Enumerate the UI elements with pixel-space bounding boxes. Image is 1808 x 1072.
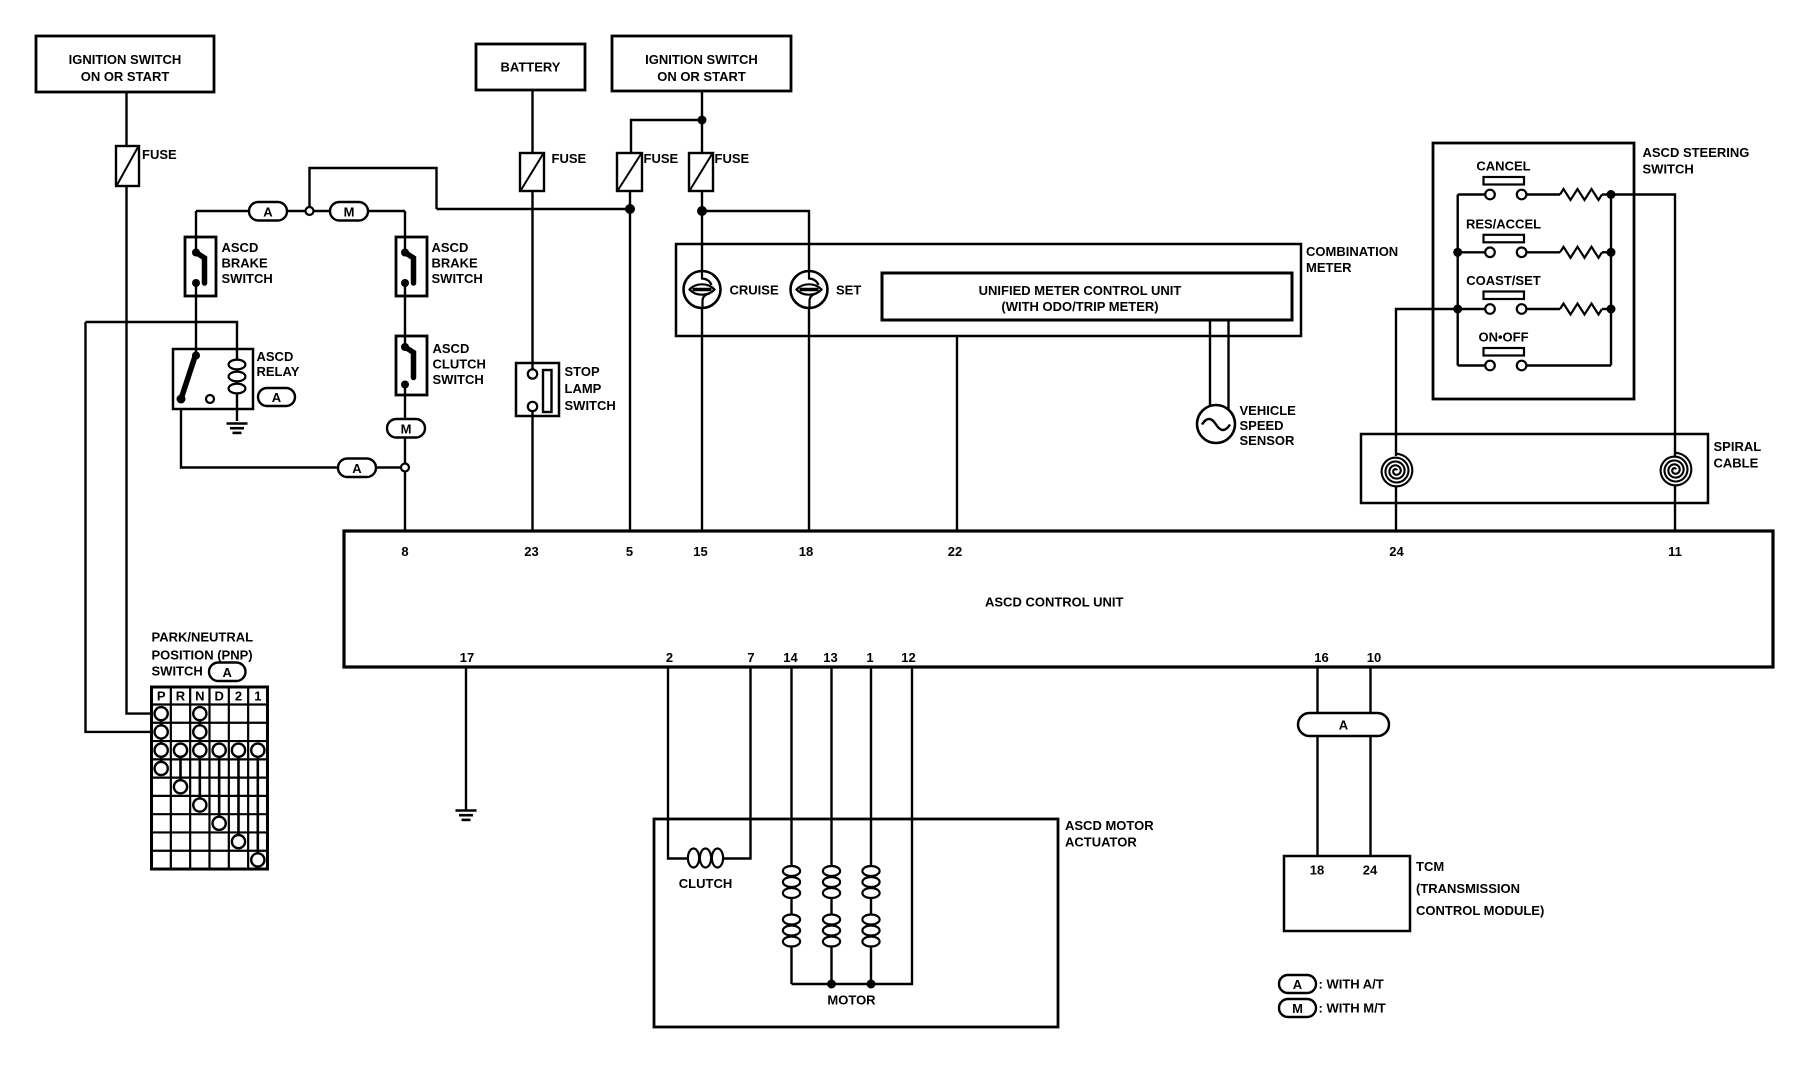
svg-text:ACTUATOR: ACTUATOR — [1065, 835, 1137, 850]
svg-text:FUSE: FUSE — [552, 151, 587, 166]
svg-text:SENSOR: SENSOR — [1240, 433, 1296, 448]
svg-text:STOP: STOP — [565, 364, 600, 379]
svg-text:15: 15 — [693, 544, 707, 559]
svg-text:IGNITION SWITCH: IGNITION SWITCH — [645, 52, 758, 67]
svg-text:CABLE: CABLE — [1714, 456, 1759, 471]
svg-text:CONTROL MODULE): CONTROL MODULE) — [1416, 903, 1544, 918]
svg-text:ON OR START: ON OR START — [81, 69, 170, 84]
svg-text:LAMP: LAMP — [565, 381, 602, 396]
svg-text:SPIRAL: SPIRAL — [1714, 439, 1762, 454]
svg-text:ASCD CONTROL UNIT: ASCD CONTROL UNIT — [985, 595, 1123, 610]
svg-text:24: 24 — [1389, 544, 1404, 559]
svg-text:SWITCH: SWITCH — [432, 271, 483, 286]
svg-text:FUSE: FUSE — [142, 147, 177, 162]
svg-text:5: 5 — [626, 544, 633, 559]
svg-text:16: 16 — [1314, 650, 1328, 665]
svg-text:7: 7 — [747, 650, 754, 665]
svg-text:14: 14 — [783, 650, 798, 665]
svg-text:P: P — [157, 689, 166, 704]
svg-text:M: M — [1292, 1001, 1303, 1016]
svg-text:A: A — [263, 204, 273, 219]
svg-text:R: R — [176, 689, 186, 704]
svg-text:METER: METER — [1306, 260, 1352, 275]
svg-text:N: N — [195, 689, 204, 704]
svg-text:ASCD STEERING: ASCD STEERING — [1643, 145, 1750, 160]
svg-text:SWITCH: SWITCH — [152, 664, 203, 679]
svg-text:RELAY: RELAY — [257, 364, 300, 379]
svg-text:UNIFIED METER CONTROL UNIT: UNIFIED METER CONTROL UNIT — [979, 283, 1182, 298]
svg-text:CRUISE: CRUISE — [730, 283, 779, 298]
svg-text:CLUTCH: CLUTCH — [433, 357, 486, 372]
svg-text:17: 17 — [460, 650, 474, 665]
svg-text:SET: SET — [836, 283, 861, 298]
svg-text:A: A — [1339, 718, 1349, 733]
svg-text:2: 2 — [666, 650, 673, 665]
svg-text:FUSE: FUSE — [715, 151, 750, 166]
svg-text:ON OR START: ON OR START — [657, 69, 746, 84]
svg-text:SWITCH: SWITCH — [565, 398, 616, 413]
svg-text:COAST/SET: COAST/SET — [1466, 273, 1540, 288]
svg-text:CLUTCH: CLUTCH — [679, 876, 732, 891]
svg-text:M: M — [401, 421, 412, 436]
svg-text:A: A — [352, 461, 362, 476]
svg-text:M: M — [344, 204, 355, 219]
svg-text:8: 8 — [401, 544, 408, 559]
svg-text:VEHICLE: VEHICLE — [1240, 403, 1297, 418]
svg-text:1: 1 — [254, 689, 261, 704]
svg-text:BRAKE: BRAKE — [222, 256, 269, 271]
svg-text:(TRANSMISSION: (TRANSMISSION — [1416, 881, 1520, 896]
svg-text:PARK/NEUTRAL: PARK/NEUTRAL — [152, 630, 254, 645]
svg-text:10: 10 — [1367, 650, 1381, 665]
svg-text:18: 18 — [799, 544, 813, 559]
svg-text:COMBINATION: COMBINATION — [1306, 244, 1398, 259]
svg-text:BATTERY: BATTERY — [501, 60, 561, 75]
svg-text:CANCEL: CANCEL — [1476, 159, 1530, 174]
svg-text:2: 2 — [235, 689, 242, 704]
svg-text:(WITH ODO/TRIP METER): (WITH ODO/TRIP METER) — [1001, 299, 1158, 314]
svg-text:ASCD: ASCD — [257, 349, 294, 364]
svg-text:FUSE: FUSE — [644, 151, 679, 166]
svg-text:ASCD: ASCD — [432, 240, 469, 255]
svg-text:22: 22 — [948, 544, 962, 559]
svg-text:13: 13 — [823, 650, 837, 665]
svg-text:: WITH A/T: : WITH A/T — [1319, 977, 1384, 992]
svg-text:SWITCH: SWITCH — [1643, 162, 1694, 177]
svg-text:18: 18 — [1310, 863, 1324, 878]
svg-text:ASCD: ASCD — [433, 341, 470, 356]
svg-text:A: A — [223, 665, 233, 680]
svg-text:: WITH M/T: : WITH M/T — [1319, 1001, 1386, 1016]
svg-text:BRAKE: BRAKE — [432, 256, 479, 271]
svg-text:SWITCH: SWITCH — [433, 372, 484, 387]
svg-text:A: A — [1293, 977, 1303, 992]
svg-text:D: D — [214, 689, 223, 704]
svg-text:23: 23 — [524, 544, 538, 559]
svg-text:A: A — [272, 390, 282, 405]
svg-text:ASCD: ASCD — [222, 240, 259, 255]
svg-text:ASCD MOTOR: ASCD MOTOR — [1065, 818, 1154, 833]
svg-text:SWITCH: SWITCH — [222, 271, 273, 286]
svg-text:POSITION (PNP): POSITION (PNP) — [152, 648, 253, 663]
svg-text:11: 11 — [1668, 544, 1682, 559]
svg-text:MOTOR: MOTOR — [827, 993, 876, 1008]
svg-text:RES/ACCEL: RES/ACCEL — [1466, 216, 1541, 231]
svg-text:ON•OFF: ON•OFF — [1478, 330, 1528, 345]
svg-text:IGNITION SWITCH: IGNITION SWITCH — [69, 52, 182, 67]
svg-text:12: 12 — [901, 650, 915, 665]
svg-text:24: 24 — [1363, 863, 1378, 878]
svg-text:1: 1 — [866, 650, 873, 665]
svg-text:TCM: TCM — [1416, 859, 1444, 874]
svg-text:SPEED: SPEED — [1240, 418, 1284, 433]
